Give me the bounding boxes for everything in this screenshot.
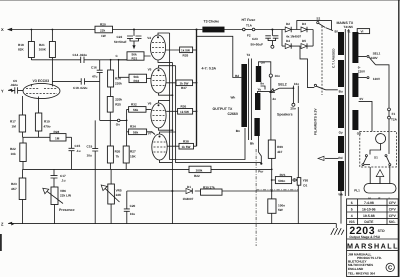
svg-text:4k7: 4k7 — [277, 150, 282, 154]
wire bottom ground rail — [9, 223, 337, 225]
wire bias node — [23, 136, 51, 138]
tube V7 — [148, 131, 179, 162]
svg-text:C16: C16 — [91, 65, 97, 69]
svg-text:R23: R23 — [11, 182, 17, 186]
svg-text:Y95: Y95 — [303, 178, 309, 182]
svg-text:R25: R25 — [115, 103, 121, 107]
svg-text:56k: 56k — [133, 108, 138, 112]
svg-text:1k 5W: 1k 5W — [180, 110, 189, 114]
svg-text:SEL2: SEL2 — [278, 83, 287, 87]
resistor R27 — [123, 146, 136, 169]
svg-text:V5: V5 — [148, 68, 152, 72]
scan blemish left edge — [0, 234, 2, 251]
TX primary winding — [352, 32, 358, 63]
selector SEL1 — [358, 51, 381, 80]
wire grid branch lower pair — [126, 109, 128, 146]
svg-text:SIG.: SIG. — [389, 220, 396, 224]
svg-text:220k: 220k — [115, 81, 122, 85]
resistor R18 — [18, 29, 34, 60]
speaker jack — [277, 103, 296, 116]
diode D2 — [284, 22, 301, 32]
svg-text:T2A: T2A — [391, 117, 398, 121]
svg-text:V4: V4 — [147, 36, 151, 40]
svg-text:Bk: Bk — [250, 142, 254, 146]
preset RV1 — [271, 173, 298, 184]
svg-text:C18 .022u: C18 .022u — [73, 86, 88, 90]
svg-text:4K7: 4K7 — [11, 187, 17, 191]
capacitor C9 — [10, 79, 23, 93]
chassis boundary dash line horizontal — [256, 189, 298, 191]
resistor R36 — [178, 105, 198, 115]
svg-text:10u: 10u — [130, 212, 135, 216]
tube V4 — [147, 33, 179, 62]
earth arrow — [376, 170, 384, 184]
svg-text:Wh: Wh — [231, 95, 236, 99]
svg-text:STD: STD — [378, 229, 385, 233]
resistor R37 — [176, 80, 197, 90]
svg-text:D1: D1 — [303, 183, 307, 187]
svg-text:D1: D1 — [187, 185, 191, 189]
wire grid branch V5 — [119, 60, 130, 78]
capacitor C20 — [124, 191, 136, 224]
tube V3 ECC83 — [23, 79, 61, 99]
svg-text:4-7: 0.3A: 4-7: 0.3A — [202, 66, 217, 70]
svg-text:HT Fuse: HT Fuse — [242, 18, 256, 22]
resistor R23 — [11, 169, 26, 223]
capacitor C16 — [91, 60, 103, 82]
switch S2 standby — [316, 17, 333, 31]
resistor R31 — [119, 52, 151, 61]
capacitor C17 — [51, 169, 66, 187]
svg-text:.022u: .022u — [10, 83, 18, 87]
switch S1 — [362, 155, 378, 166]
OT primary winding — [241, 64, 247, 127]
tube V5 — [148, 66, 176, 96]
svg-text:22K: 22K — [116, 193, 122, 197]
svg-text:1W: 1W — [101, 34, 106, 38]
svg-text:C23: C23 — [252, 37, 258, 41]
svg-text:16-10-96: 16-10-96 — [362, 207, 376, 211]
svg-text:Bn: Bn — [236, 129, 240, 133]
capacitor C14 — [31, 53, 99, 63]
svg-text:CPV: CPV — [389, 207, 397, 211]
svg-text:S1: S1 — [374, 155, 378, 159]
svg-text:240V: 240V — [370, 56, 378, 60]
TX heater windings — [338, 95, 344, 128]
svg-text:Y: Y — [1, 88, 4, 93]
capacitor C15 — [69, 137, 81, 169]
svg-text:100K: 100K — [39, 48, 47, 52]
svg-text:22k LIN: 22k LIN — [60, 193, 72, 197]
svg-text:.1u: .1u — [61, 178, 66, 182]
wire coupling node down — [99, 81, 101, 120]
wire grid drive upper — [100, 59, 127, 61]
fuse element F95 — [297, 178, 308, 188]
fuse F1 — [388, 108, 398, 121]
choke T3 — [202, 20, 224, 33]
fuse F2 HT — [242, 18, 256, 38]
resistor R33 — [129, 74, 151, 83]
wire feedback line — [127, 190, 298, 192]
revision table text — [349, 201, 396, 224]
node O test point — [116, 119, 120, 127]
svg-text:Rd: Rd — [338, 156, 342, 160]
svg-text:19-5-88: 19-5-88 — [363, 214, 375, 218]
resistor R34 — [127, 125, 152, 135]
wire plate bus lower — [176, 66, 262, 163]
svg-text:R19: R19 — [44, 120, 50, 124]
diode D3 — [301, 22, 313, 32]
svg-text:1M: 1M — [12, 125, 17, 129]
wire ground branch left — [94, 169, 96, 223]
svg-text:CPV: CPV — [389, 201, 397, 205]
svg-text:R35: R35 — [183, 54, 189, 58]
svg-text:4o: 4o — [272, 97, 276, 101]
svg-text:10k: 10k — [11, 152, 16, 156]
wire phase input line — [100, 119, 127, 121]
svg-text:220V: 220V — [358, 69, 366, 73]
svg-text:R36: R36 — [181, 105, 187, 109]
svg-text:C.T. UNUSED: C.T. UNUSED — [332, 48, 336, 68]
svg-text:T41N5: T41N5 — [344, 25, 354, 29]
svg-text:6: 6 — [351, 201, 353, 205]
output transformer T2 label — [213, 53, 251, 116]
svg-text:Gn: Gn — [357, 132, 361, 136]
svg-text:15K: 15K — [130, 154, 136, 158]
svg-text:CPV: CPV — [389, 214, 397, 218]
svg-text:.1u: .1u — [76, 149, 81, 153]
resistor R22 — [10, 137, 26, 169]
svg-text:1M: 1M — [55, 137, 60, 141]
svg-text:100o: 100o — [278, 203, 285, 207]
address block — [348, 252, 382, 275]
label primary taps — [357, 66, 372, 136]
node Z — [1, 222, 14, 227]
svg-text:PL1: PL1 — [354, 188, 360, 192]
svg-text:82K: 82K — [18, 48, 24, 52]
wire bridge AC bottom — [300, 46, 314, 88]
svg-text:5W: 5W — [278, 208, 283, 212]
wire bridge left link — [281, 30, 283, 47]
selector SEL2 — [270, 83, 294, 93]
wire cathode bus — [171, 62, 173, 223]
svg-text:C22: C22 — [117, 35, 123, 39]
svg-text:7k: 7k — [116, 154, 120, 158]
resistor R19 — [35, 113, 50, 137]
copyright mark — [386, 263, 394, 271]
page top border — [0, 0, 400, 2]
wire heater common to ground — [340, 191, 342, 224]
dashed TX boundary — [321, 26, 323, 95]
svg-text:Speakers: Speakers — [277, 112, 293, 116]
svg-text:50+50uF: 50+50uF — [251, 42, 264, 46]
svg-text:F2: F2 — [247, 34, 251, 38]
svg-text:R27: R27 — [130, 149, 136, 153]
svg-text:T2: T2 — [247, 53, 251, 57]
svg-text:470o: 470o — [44, 125, 51, 129]
wire OT centre tap feed — [197, 36, 242, 77]
svg-text:R31: R31 — [132, 57, 138, 61]
svg-text:R17: R17 — [10, 120, 16, 124]
svg-text:V6: V6 — [148, 102, 152, 106]
page right border — [398, 0, 400, 277]
wire 16 ohm tap — [259, 62, 280, 98]
diode D5 — [301, 39, 313, 49]
svg-text:T1A: T1A — [246, 23, 253, 27]
junction cathode-feedback — [171, 190, 173, 192]
TX winding gap labels — [338, 90, 343, 197]
label 8 ohm tap — [258, 82, 266, 92]
svg-text:D2: D2 — [286, 22, 290, 26]
svg-text:1N4007: 1N4007 — [183, 197, 194, 201]
resistor R26 — [107, 146, 120, 169]
title block frame — [347, 199, 399, 277]
resistor R25 — [107, 87, 122, 112]
svg-text:4: 4 — [351, 214, 353, 218]
ground symbol — [331, 224, 344, 235]
resistor R32 — [127, 103, 151, 113]
capacitor C18 — [52, 78, 99, 90]
svg-text:R21: R21 — [39, 43, 45, 47]
wire feedback down — [297, 86, 299, 224]
capacitor C19 — [87, 120, 99, 169]
tube V6 — [148, 101, 178, 131]
capacitor C23 — [251, 29, 279, 49]
svg-text:22k: 22k — [100, 28, 105, 32]
diode D4 — [282, 39, 300, 49]
svg-text:R26: R26 — [115, 149, 121, 153]
svg-text:ENGLAND: ENGLAND — [348, 267, 364, 271]
svg-text:ISS: ISS — [349, 220, 355, 224]
OT core — [249, 59, 252, 141]
TX core — [345, 29, 348, 196]
resistor R38 — [179, 140, 197, 149]
svg-text:Bu: Bu — [339, 90, 343, 94]
resistor R30 — [201, 185, 223, 195]
svg-text:120V: 120V — [373, 77, 381, 81]
label Vi box — [357, 29, 369, 34]
svg-text:R22: R22 — [194, 174, 200, 178]
svg-text:100k: 100k — [196, 168, 203, 172]
svg-text:R32: R32 — [131, 103, 137, 107]
svg-text:MAINS TX: MAINS TX — [337, 21, 354, 25]
svg-text:R22: R22 — [10, 147, 16, 151]
svg-text:DATE: DATE — [364, 220, 374, 224]
svg-text:1k 5W: 1k 5W — [180, 81, 189, 85]
svg-text:5: 5 — [351, 207, 353, 211]
svg-text:OUTPUT TX: OUTPUT TX — [213, 107, 233, 111]
svg-text:47u: 47u — [92, 75, 97, 79]
svg-text:8o: 8o — [260, 82, 264, 86]
potentiometer VR6 presence — [43, 187, 72, 224]
resistor R40 100o — [268, 180, 285, 224]
chassis boundary dash line — [255, 149, 257, 246]
svg-text:Gy: Gy — [339, 131, 343, 135]
svg-text:F1: F1 — [392, 112, 396, 116]
svg-text:T3 Choke: T3 Choke — [204, 20, 220, 24]
svg-text:D4: D4 — [286, 39, 290, 43]
svg-text:D5: D5 — [302, 39, 306, 43]
resistor R29 — [155, 166, 273, 178]
wire plate bus upper — [170, 33, 245, 160]
diode D1 — [183, 185, 194, 201]
mains plug PL1 — [354, 166, 396, 200]
pilot lamp — [370, 134, 386, 155]
switch S3 mains — [385, 155, 391, 166]
svg-text:50+50uF: 50+50uF — [114, 40, 127, 44]
svg-text:220k: 220k — [115, 98, 122, 102]
title 2203 STD — [349, 225, 385, 239]
svg-text:Vi: Vi — [361, 30, 364, 34]
svg-text:C2660: C2660 — [228, 112, 238, 116]
svg-text:MARSHALL: MARSHALL — [347, 242, 399, 251]
switch S4 standby — [314, 84, 338, 90]
label 4 ohm tap — [258, 91, 277, 101]
svg-text:Pur: Pur — [258, 170, 264, 174]
svg-text:FILAMENTS 6.3V: FILAMENTS 6.3V — [314, 108, 318, 135]
svg-text:56k: 56k — [133, 130, 138, 134]
resistor R35 — [180, 47, 197, 58]
wire 4 ohm to R39 — [270, 98, 272, 141]
svg-text:R34: R34 — [130, 125, 136, 129]
resistor R21 — [39, 29, 56, 85]
svg-text:C20: C20 — [130, 204, 136, 208]
resistor R39 — [268, 140, 283, 180]
svg-text:C15: C15 — [75, 144, 81, 148]
svg-text:C14 .022u: C14 .022u — [73, 53, 88, 57]
mains TX label — [337, 21, 354, 29]
junction choke tap — [196, 29, 198, 31]
svg-text:V7: V7 — [148, 131, 152, 135]
svg-text:500o: 500o — [278, 179, 285, 183]
TX HT secondary winding — [338, 32, 344, 55]
pilot lamp dashed box — [360, 132, 397, 168]
svg-text:7-4-98: 7-4-98 — [364, 201, 374, 205]
svg-text:C17: C17 — [60, 174, 66, 178]
svg-text:Ov: Ov — [116, 123, 120, 127]
svg-text:Gn: Gn — [261, 60, 265, 64]
svg-text:S2: S2 — [316, 17, 320, 21]
svg-text:Rd: Rd — [235, 74, 239, 78]
svg-text:Bl: Bl — [335, 30, 338, 34]
node Y — [1, 88, 14, 93]
wire V3 cathode leads — [23, 99, 39, 116]
svg-text:R33: R33 — [134, 79, 140, 83]
resistor R28 — [50, 130, 72, 141]
svg-text:1k 5W: 1k 5W — [181, 48, 190, 52]
svg-text:R37: R37 — [181, 86, 187, 90]
svg-text:VR5: VR5 — [116, 189, 122, 193]
svg-text:10u: 10u — [87, 154, 92, 158]
svg-text:R24: R24 — [115, 77, 121, 81]
svg-text:SEL1: SEL1 — [373, 51, 381, 55]
wire fuse to switch — [388, 119, 390, 154]
svg-text:4x 1N4007: 4x 1N4007 — [286, 34, 301, 38]
svg-text:C19: C19 — [87, 144, 93, 148]
resistor R17 — [10, 115, 26, 137]
resistor R20 — [95, 22, 113, 38]
svg-text:X: X — [1, 27, 4, 32]
resistor R24 — [108, 60, 123, 87]
OT secondary winding — [256, 66, 261, 82]
svg-text:1k 5W: 1k 5W — [182, 145, 191, 149]
node X — [1, 27, 12, 32]
wire screen feed — [196, 30, 198, 147]
wire bridge right link — [312, 30, 314, 47]
potentiometer VR5 — [101, 169, 122, 223]
wire selector to jack — [292, 86, 294, 103]
svg-text:Presence: Presence — [59, 208, 75, 212]
svg-text:Output Stage & PSU: Output Stage & PSU — [349, 235, 380, 239]
svg-text:C: C — [388, 265, 393, 272]
svg-text:D3: D3 — [302, 22, 306, 26]
wire presence node rail — [23, 168, 156, 170]
svg-text:16o: 16o — [275, 74, 280, 78]
svg-text:TEL: MKEYNS 364: TEL: MKEYNS 364 — [348, 272, 375, 276]
svg-text:R18: R18 — [18, 43, 24, 47]
wire selector common — [376, 65, 389, 108]
wire HT top rail — [9, 29, 284, 31]
wire bridge AC top — [297, 21, 332, 30]
svg-text:25o: 25o — [290, 107, 295, 111]
wire filament feed arrow — [318, 156, 338, 160]
wire splitter tail — [109, 112, 111, 146]
svg-text:R39: R39 — [277, 145, 283, 149]
wire secondary common — [259, 136, 262, 163]
svg-text:16o: 16o — [294, 82, 299, 86]
svg-text:V3 ECC83: V3 ECC83 — [33, 79, 50, 83]
capacitor C22 — [114, 29, 142, 50]
